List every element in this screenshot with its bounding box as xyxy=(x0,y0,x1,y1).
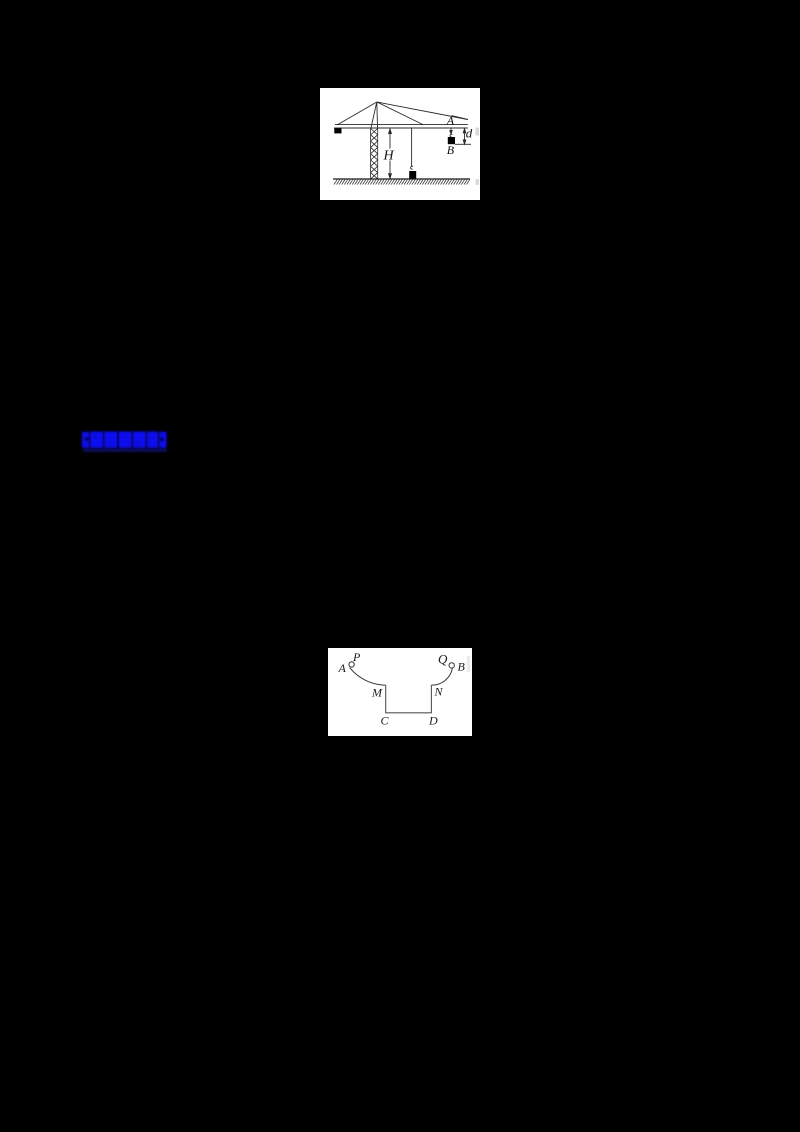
svg-text:Q: Q xyxy=(438,652,448,667)
right bracket glyph xyxy=(159,432,166,448)
left curved ramp A to M xyxy=(350,668,386,686)
load block on ground xyxy=(409,171,416,179)
wall D to N xyxy=(430,685,432,713)
tower right leg xyxy=(376,102,379,129)
ball Q at B xyxy=(449,663,454,668)
svg-text:C: C xyxy=(381,714,390,728)
underline xyxy=(83,449,167,452)
svg-text:A: A xyxy=(338,661,347,675)
ground hatching xyxy=(334,180,470,185)
jib top chord xyxy=(335,124,468,126)
wall M to C xyxy=(385,685,387,713)
scrollbar artifact right edge lower xyxy=(476,179,480,185)
jib bottom chord xyxy=(334,127,468,129)
stay cable apex to right tip xyxy=(377,102,468,120)
svg-text:B: B xyxy=(458,660,466,674)
figure 2: double ramp with pit diagram (white panel) xyxy=(328,648,472,736)
char block 2 xyxy=(104,432,117,448)
char block 4 xyxy=(133,432,146,448)
right curved ramp N to B xyxy=(431,668,452,685)
hoist cable at A xyxy=(450,128,452,134)
ball P at A xyxy=(349,662,354,667)
svg-text:A: A xyxy=(446,113,455,127)
char block 5 xyxy=(147,432,158,448)
hook mid cable xyxy=(411,166,413,169)
char block 3 xyxy=(119,432,132,448)
svg-text:D: D xyxy=(428,714,438,728)
counterweight block xyxy=(334,128,341,133)
stay cable apex to left tip xyxy=(337,102,377,125)
d dimension arrow xyxy=(455,129,471,145)
svg-text:N: N xyxy=(434,685,444,699)
scrollbar artifact right edge xyxy=(467,656,470,672)
tower left leg xyxy=(371,102,377,129)
svg-text:H: H xyxy=(383,149,395,164)
blue caption: blurred bold blue CJK heading with underline xyxy=(80,429,172,455)
svg-text:d: d xyxy=(466,126,473,141)
svg-text:M: M xyxy=(371,686,383,700)
svg-text:P: P xyxy=(352,650,361,664)
svg-text:B: B xyxy=(447,143,455,157)
hoist cable mid jib xyxy=(411,128,413,167)
stay cable apex to mid jib xyxy=(377,102,423,125)
left bracket glyph xyxy=(82,432,89,448)
tie right tip to pulley A xyxy=(452,116,468,120)
tower lattice mast xyxy=(371,129,378,180)
char block 1 xyxy=(90,432,103,448)
floor C to D xyxy=(385,712,432,714)
scrollbar artifact right edge upper xyxy=(476,128,480,136)
hook at A xyxy=(450,134,452,137)
block B xyxy=(448,137,455,144)
figure 1: tower crane diagram (white panel) xyxy=(320,88,480,200)
H dimension arrow xyxy=(389,129,392,178)
ground line xyxy=(333,178,470,180)
